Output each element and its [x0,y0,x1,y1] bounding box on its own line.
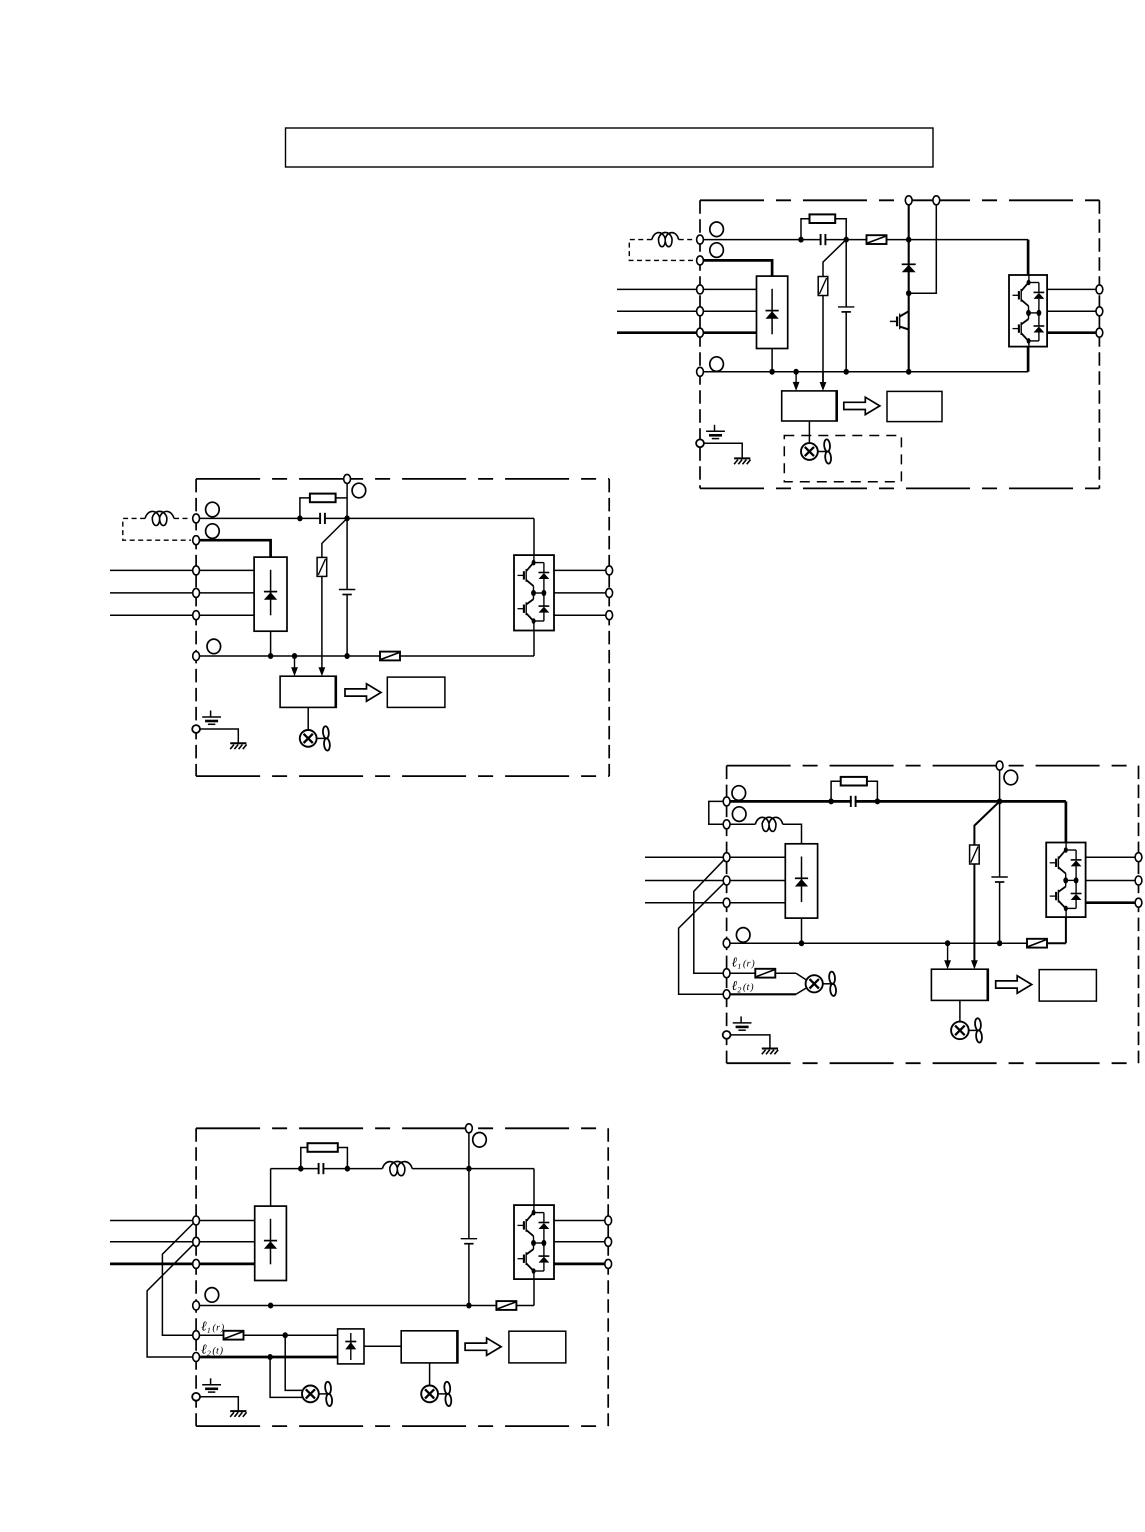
C4 node l1 fan tap [283,1332,288,1338]
C2 terminal ring P top [352,483,366,498]
C2 output line U [554,569,609,571]
C1 node rectifier-N bus [769,369,774,375]
C2 node B capacitor/P bus [344,515,349,521]
C1 display box [887,391,942,421]
C4 earth mark [210,1378,212,1385]
C1 input line R [617,288,757,290]
C1 terminal ring N(-) [710,357,724,372]
C1 sense line to control PCB [822,296,824,383]
C1 wire P(+) to rectifier (bold) [700,260,772,276]
C1 DC reactor (option, external) [652,232,679,246]
C4 charging resistor bypass [301,1148,308,1169]
C3 sense line to control PCB [973,864,975,961]
C4 control rectifier diode block [338,1329,364,1364]
C3 enclosure right edge [1138,766,1140,1064]
C3 inverter module [1046,843,1085,918]
C2 charging resistor bypass [300,498,310,519]
C3 input line T [645,902,785,904]
C1 DC bus capacitor wire [845,240,847,307]
C3 terminal l1 [723,969,730,978]
C2 enclosure left edge [195,479,197,776]
C1 node brake/P bus [906,237,911,243]
C4 DC reactor L1 (in bus) [382,1161,412,1175]
C3 node C capacitor/P bus [997,798,1002,804]
C2 terminal ring P(+) [206,524,220,539]
C2 terminal P1 [193,514,200,523]
C3 tap r from R phase [694,857,727,973]
C3 terminal T [723,898,730,907]
C4 input line R [110,1220,255,1222]
C2 DC bus capacitor wire [346,518,348,589]
C1 enclosure left edge [699,200,701,488]
C2 output line W [554,614,609,616]
C2 charging resistor [310,494,336,503]
C1 charging resistor bypass [801,219,810,240]
C1 output line U [1047,288,1099,290]
C2 arrow sense 1 into control PCB [294,656,296,668]
C2 terminal P(+) [193,536,200,545]
C1 output terminal U [1096,285,1103,294]
C3 discharge resistor [970,845,980,864]
C4 fuse F1 [496,1301,516,1310]
C1 arrow sense 2 into control PCB [822,372,824,383]
C2 chassis ground [230,742,246,744]
C4 terminal l1 [193,1331,200,1340]
C1 input line S [617,310,757,312]
C1 arrow sense 1 into control PCB [795,372,797,383]
C4 terminal N(-) [193,1301,200,1310]
C3 DC bus capacitor wire [999,801,1001,877]
C4 panel fan M2 [302,1386,319,1403]
C3 node rectifier-N bus [799,940,804,946]
C2 DC bus capacitor [339,589,355,591]
C1 terminal P1 [697,235,704,244]
C2 output terminal W [606,611,613,620]
C3 wire ground terminal to chassis [731,1035,770,1049]
C3 node A charging bypass [828,798,833,804]
C1 control PCB box [782,391,838,421]
C4 enclosure bottom edge [196,1425,608,1427]
C2 control PCB box [280,676,336,707]
C2 terminal P (top edge) [344,474,351,483]
C3 terminal ring P(+) [732,807,746,822]
C4 node C capacitor/P bus [466,1166,471,1172]
C2 input line T [110,614,254,616]
C2 discharge resistor feed [322,518,347,557]
C1 block arrow [844,397,880,414]
C4 DC bus capacitor [461,1238,477,1240]
C4 terminal l2 [193,1353,200,1362]
C1 brake diode [902,263,916,265]
C3 rectifier bridge [785,844,817,918]
C1 output terminal W [1096,328,1103,337]
C1 enclosure right edge [1098,200,1100,488]
C1 node sense tap N bus [793,369,798,375]
C1 contactor contact [822,237,825,243]
C2 terminal G [192,725,200,733]
C2 wire P(+) to rectifier (bold) [196,540,271,557]
C3 node sense tap N bus [945,940,950,946]
C1 terminal P(+) [697,256,704,265]
C3 label l1 (r) [732,958,737,967]
C3 node B charging bypass [875,798,880,804]
C1 wire rectifier to N bus [771,349,773,372]
C3 terminal P1 [723,797,730,806]
C4 enclosure top edge [196,1127,608,1129]
C3 output line W (bold) [1086,901,1139,904]
C4 wire l2 to diode block (bold) [200,1356,338,1359]
C4 charging resistor [308,1143,338,1152]
C2 reactor dashed wiring [174,517,191,519]
C4 node rectifier-N bus [268,1303,273,1309]
C4 terminal S [193,1237,200,1246]
C1 output line W (bold) [1047,331,1099,334]
C3 arrow sense 2 into control PCB [971,960,978,969]
C4 N bus [196,1305,496,1307]
C4 label l2 (t) [201,1345,206,1354]
C3 terminal N(-) [723,939,730,948]
C1 discharge resistor feed [823,240,846,277]
C3 discharge resistor feed [974,801,999,845]
C4 terminal ring N(-) [205,1288,219,1303]
C3 input line S [645,880,785,882]
C4 DC bus capacitor wire [468,1169,470,1239]
C1 terminal ring P(+) [710,243,724,258]
C1 brake chopper leg (bold) [908,200,910,371]
C2 terminal ring P1 [206,502,220,517]
C3 terminal P(+) [723,820,730,829]
C3 charging resistor bypass [831,781,841,801]
C1 terminal G [696,439,704,447]
C4 node capacitor-N bus [466,1303,471,1309]
C2 node capacitor-N bus [344,653,349,659]
C1 cooling fan (option box) [784,436,901,482]
C1 terminal ring P1 [710,222,724,237]
C2 terminal S [193,588,200,597]
C4 tap r from R phase [162,1221,196,1336]
C2 input line R [110,569,254,571]
C3 input line R [645,856,785,858]
C4 node A charging bypass [298,1166,303,1172]
C3 terminal ring P top [1004,770,1018,785]
C4 output terminal U [605,1216,612,1225]
C3 chassis ground [762,1048,778,1050]
C4 chassis ground [230,1410,246,1412]
C3 wire l2 to fan (bold) [730,993,796,995]
C4 output terminal W [605,1259,612,1268]
C2 fuse F1 [380,652,400,661]
C3 N bus [727,942,1027,944]
C3 display box [1039,970,1096,1002]
C3 terminal l2 [723,990,730,999]
C4 output terminal V [605,1237,612,1246]
C2 terminal N(-) [193,652,200,661]
C3 output terminal U [1135,853,1142,862]
C1 wire node to terminal RB [909,200,937,293]
C4 node B charging bypass [345,1166,350,1172]
C1 inverter module [1009,275,1047,347]
C3 fuse F1 [1027,939,1047,948]
C3 enclosure top edge [727,765,1139,767]
C2 earth mark [210,711,212,718]
C2 node rectifier-N bus [268,653,273,659]
C2 inverter module [514,555,554,630]
C2 wire rectifier to N bus [270,631,272,656]
C2 wire control to fan [307,707,309,730]
C3 panel fan M2 [806,975,823,992]
C2 output line V [554,592,609,594]
C3 terminal S [723,876,730,885]
C2 input line S [110,592,254,594]
C1 enclosure top edge [700,199,1099,201]
C1 wire inverter to N bus (bold) [1027,347,1030,372]
C2 cooling fan M1 [300,730,317,747]
C4 terminal T [193,1259,200,1268]
C1 terminal S [697,307,704,316]
C2 discharge resistor [317,557,327,576]
C4 contactor contact [320,1166,323,1172]
C1 terminal N(-) [697,367,704,376]
C3 control fuse [755,969,775,978]
C4 input line S [110,1241,255,1243]
C2 terminal T [193,611,200,620]
C3 contactor contact [852,798,855,804]
C1 enclosure bottom edge [700,487,1099,489]
C3 output terminal V [1135,876,1142,885]
C3 output line U [1086,856,1139,858]
C4 output line U [554,1220,608,1222]
C3 wire l1 to fan [730,972,755,974]
C4 tap t from S phase [147,1242,196,1357]
C2 display box [387,677,445,707]
C2 terminal ring N(-) [207,639,221,654]
C4 wire top terminal to bus [468,1128,470,1168]
C1 wire control to fan [808,421,810,443]
C3 jumper P1 to P(+) [709,801,727,824]
C4 block arrow [465,1338,501,1355]
C3 label l2 (t) [732,981,737,990]
C4 control PCB box [401,1331,458,1363]
C2 rectifier bridge [254,557,287,631]
C3 earth mark [740,1016,742,1023]
C1 discharge resistor [818,277,828,296]
C4 wire diode block to control PCB [364,1345,401,1347]
C4 cooling fan M1 [421,1386,438,1403]
C2 node A charging bypass [297,515,302,521]
C4 P bus [271,1168,383,1170]
C1 DC bus capacitor [838,306,854,308]
C2 output terminal U [606,566,613,575]
C4 display box [509,1331,566,1363]
C1 node B capacitor/P bus [844,237,849,243]
C4 wire control to fan [429,1363,431,1386]
C3 node capacitor-N bus [997,940,1002,946]
C1 N bus [700,371,1028,373]
C3 wire P(+) reactor to rectifier [727,823,756,825]
C3 DC bus capacitor [991,876,1007,878]
C3 enclosure left edge [726,766,728,1064]
C3 terminal ring N(-) [736,928,750,943]
C1 terminal R [697,285,704,294]
C1 node brake diode-IGBT [906,290,911,296]
C3 control PCB box [931,969,988,1000]
C3 terminal R [723,853,730,862]
C1 fuse F1 [867,235,887,244]
C4 terminal R [193,1216,200,1225]
C4 output line V [554,1241,608,1243]
C3 P bus (bold) [727,800,1066,803]
C4 label l1 (r) [201,1322,206,1331]
C1 terminal T [697,328,704,337]
C4 terminal P (top edge) [466,1124,473,1133]
C2 terminal R [193,566,200,575]
C1 wire P bus to inverter (bold) [1027,240,1030,275]
C3 output terminal W [1135,898,1142,907]
C4 enclosure right edge [607,1128,609,1426]
C2 DC reactor (option, external) [145,511,174,525]
C1 input line T (bold) [617,331,757,334]
C2 arrow sense 2 into control PCB [319,667,326,676]
C2 output terminal V [606,588,613,597]
C3 block arrow [996,976,1032,993]
title box (empty) [286,128,934,167]
C4 inverter module [514,1205,554,1279]
C4 wire l2 tap to fan [270,1357,302,1397]
C1 cooling fan M1 [801,443,818,460]
C1 reactor dashed wiring [679,239,695,241]
C1 terminal RB1 (top edge) [905,196,912,205]
C2 wire top terminal to bus [346,479,348,519]
C4 wire rectifier to P bus [270,1169,272,1207]
C2 P bus [196,517,534,519]
C4 wire l1 to diode block [200,1334,224,1336]
C4 control fuse [224,1331,244,1340]
C1 chassis ground [734,457,750,459]
C2 contactor contact [321,515,324,521]
C2 N bus [196,655,380,657]
C3 wire rectifier to N bus [801,918,803,943]
C3 output line V [1086,880,1139,882]
C4 rectifier bridge [255,1206,287,1280]
C2 enclosure top edge [196,478,609,480]
C3 tap t from S phase [679,881,727,995]
C2 block arrow [345,684,381,701]
C3 cooling fan M1 [951,1022,969,1040]
C1 wire ground terminal to chassis [704,443,742,458]
C4 node l2 fan tap [267,1354,272,1360]
C1 output line V [1047,310,1099,312]
C4 wire l1 tap to fan [285,1335,302,1390]
C1 terminal RB2 (top edge) [933,196,940,205]
C2 node sense tap N bus [292,653,297,659]
C3 terminal ring P1 [732,786,746,801]
C3 wire top terminal to bus [999,766,1001,802]
C2 wire ground terminal to chassis [200,729,238,743]
C3 enclosure bottom edge [727,1062,1139,1064]
C1 earth mark [714,425,716,432]
C2 sense line to control PCB [321,576,323,667]
C4 input line T (bold) [110,1263,255,1266]
C4 terminal G [192,1393,200,1401]
C1 output terminal V [1096,307,1103,316]
C3 arrow sense 1 into control PCB [947,943,949,961]
C1 node capacitor-N bus [844,369,849,375]
C1 node A charging bypass [798,237,803,243]
C1 rectifier bridge [757,276,788,348]
C4 enclosure left edge [195,1128,197,1426]
C1 brake IGBT Q1 [890,320,897,322]
C4 terminal ring P top [473,1133,487,1148]
C3 DC reactor L1 (internal) [755,817,783,831]
C1 P bus [700,239,867,241]
C4 output line W (bold) [554,1263,608,1266]
C3 terminal G [723,1031,731,1039]
C4 wire ground terminal to chassis [200,1397,238,1411]
C3 charging resistor [841,777,867,786]
C3 terminal P (top edge) [996,761,1003,770]
C2 enclosure bottom edge [196,775,609,777]
C2 enclosure right edge [608,479,610,776]
C3 wire control to fan [959,1000,961,1021]
C1 node brake-N bus [906,369,911,375]
C1 charging resistor [810,214,836,223]
